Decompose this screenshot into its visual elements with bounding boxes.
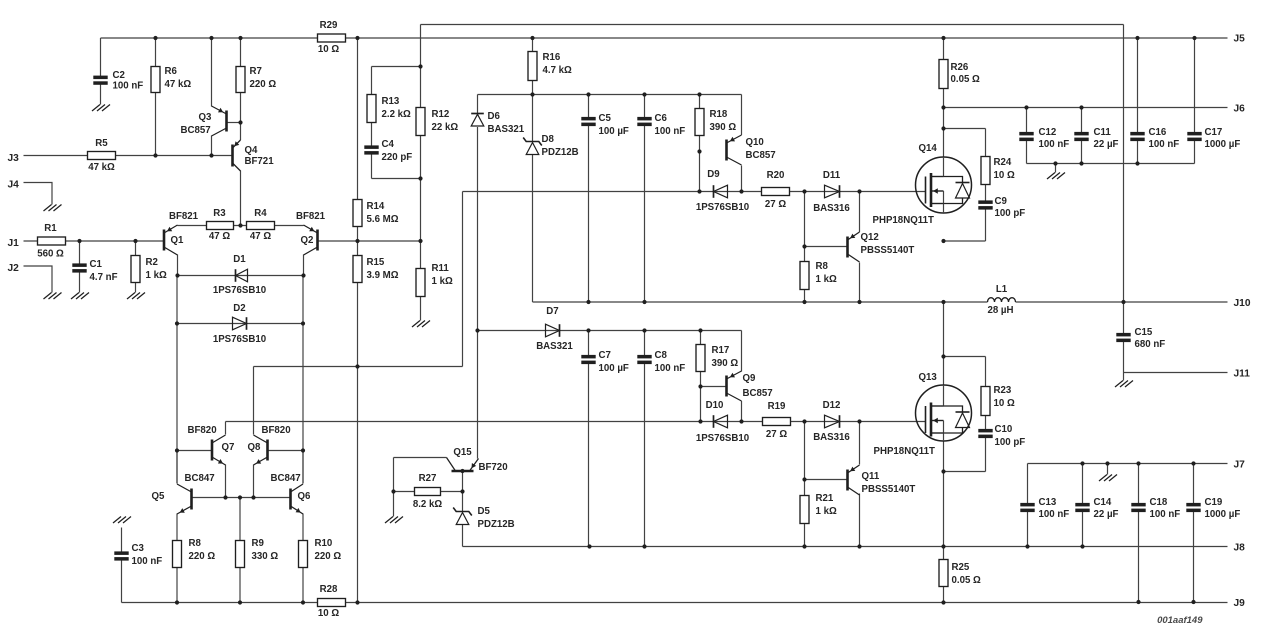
svg-text:D7: D7: [546, 306, 558, 317]
wire Q4 collector: [240, 171, 242, 226]
wire Q12 emitter: [859, 192, 861, 233]
svg-text:R25: R25: [952, 562, 970, 573]
wire Q8 base: [268, 450, 304, 452]
junction (176.5,602): [175, 600, 179, 604]
svg-text:D12: D12: [823, 400, 841, 411]
wire Q11 emitter: [859, 422, 861, 465]
transistor Q2 BF821: [304, 225, 318, 255]
svg-text:Q12: Q12: [861, 232, 879, 243]
resistor R1: [38, 237, 66, 245]
wire J9 bottom rail: [122, 602, 1228, 604]
wire Q13 source: [943, 442, 945, 560]
junction (804,301.5): [802, 300, 806, 304]
junction (302.5,323): [301, 321, 305, 325]
capacitor C15: [1116, 333, 1130, 342]
svg-text:Q13: Q13: [919, 372, 938, 383]
wire Q10 emitter: [741, 95, 743, 136]
wire C3 branch: [121, 528, 123, 603]
svg-text:R6: R6: [165, 66, 178, 77]
svg-text:22 µF: 22 µF: [1094, 139, 1119, 150]
wire R13 C4: [372, 67, 421, 179]
svg-text:C13: C13: [1039, 497, 1057, 508]
capacitor C16: [1130, 132, 1144, 141]
svg-text:C1: C1: [90, 259, 103, 270]
wire J3 input line: [24, 155, 233, 157]
inductor L1: [988, 298, 1016, 302]
svg-text:R16: R16: [543, 52, 561, 63]
wire C7 branch: [588, 331, 590, 547]
svg-text:J10: J10: [1234, 298, 1251, 309]
svg-text:Q8: Q8: [248, 442, 262, 453]
junction (253,497): [251, 495, 255, 499]
junction (1137,163): [1135, 161, 1139, 165]
svg-text:D6: D6: [488, 111, 501, 122]
wire Q1 emitter line: [178, 225, 304, 227]
svg-text:1 kΩ: 1 kΩ: [146, 270, 167, 281]
wire C17 branch: [1194, 38, 1196, 164]
wire C1 branch: [79, 241, 81, 293]
svg-text:1 kΩ: 1 kΩ: [816, 506, 837, 517]
wire J4 lead: [24, 183, 53, 205]
svg-text:100 nF: 100 nF: [655, 363, 686, 374]
junction (239.5,497): [238, 495, 242, 499]
junction (741,191): [739, 189, 743, 193]
svg-text:D9: D9: [707, 169, 720, 180]
junction (700,330): [698, 328, 702, 332]
svg-text:100 nF: 100 nF: [1039, 139, 1070, 150]
svg-text:R9: R9: [252, 538, 265, 549]
junction (943,107): [941, 105, 945, 109]
capacitor C17: [1187, 132, 1201, 141]
junction (477,330): [475, 328, 479, 332]
junction (699,94): [697, 92, 701, 96]
wire R23 C10 mid: [985, 416, 987, 430]
wire decouple mid rail: [1027, 163, 1195, 165]
capacitor C10: [978, 429, 992, 438]
svg-text:BAS321: BAS321: [488, 124, 525, 135]
junction (302.5,450): [301, 448, 305, 452]
svg-text:1PS76SB10: 1PS76SB10: [696, 202, 749, 213]
resistor R17: [696, 345, 705, 372]
capacitor C4: [364, 145, 378, 154]
capacitor C3: [114, 551, 128, 560]
svg-text:1PS76SB10: 1PS76SB10: [696, 433, 749, 444]
svg-text:D8: D8: [542, 134, 555, 145]
ground above C3: [113, 517, 131, 524]
svg-text:R19: R19: [768, 401, 786, 412]
transistor Q3 BC857: [212, 106, 227, 136]
wire Q7 base: [177, 450, 212, 452]
junction (859,191): [857, 189, 861, 193]
svg-text:C15: C15: [1135, 327, 1153, 338]
resistor R7: [236, 67, 245, 93]
capacitor C5: [581, 117, 595, 126]
svg-text:BF720: BF720: [479, 462, 508, 473]
wire Q9 base link: [701, 386, 727, 388]
svg-text:R14: R14: [367, 201, 385, 212]
junction (357,240.5): [355, 239, 359, 243]
wire R8 branch upper: [804, 192, 806, 303]
transistor Q1 BF821: [164, 225, 178, 255]
junction (357,37.5): [355, 36, 359, 40]
wire R14 R15 divider: [357, 38, 359, 603]
svg-text:C11: C11: [1094, 127, 1112, 138]
capacitor C12: [1019, 132, 1033, 141]
svg-text:10 Ω: 10 Ω: [994, 398, 1015, 409]
wire Q6 emitter: [302, 514, 304, 541]
diode D12: [825, 415, 840, 428]
resistor R13: [367, 95, 376, 123]
junction (393,491): [391, 489, 395, 493]
junction (1082,463): [1080, 461, 1084, 465]
svg-text:BF821: BF821: [169, 211, 199, 222]
capacitor C1: [72, 263, 86, 272]
wire Q12 collector: [859, 263, 861, 303]
svg-text:1000 µF: 1000 µF: [1205, 509, 1241, 520]
svg-text:1PS76SB10: 1PS76SB10: [213, 285, 266, 296]
resistor R8 (1 k): [800, 262, 809, 290]
svg-text:100 nF: 100 nF: [132, 556, 163, 567]
svg-text:Q1: Q1: [171, 235, 185, 246]
svg-text:BC857: BC857: [746, 150, 776, 161]
svg-text:C9: C9: [995, 196, 1008, 207]
svg-text:680 nF: 680 nF: [1135, 339, 1166, 350]
wire Q6 collector: [302, 451, 304, 484]
wire Q8 emitter: [253, 465, 255, 498]
svg-text:47 kΩ: 47 kΩ: [165, 79, 192, 90]
wire R25 to rail: [943, 587, 945, 603]
svg-text:100 nF: 100 nF: [1039, 509, 1070, 520]
svg-text:C10: C10: [995, 424, 1013, 435]
svg-text:Q4: Q4: [245, 145, 259, 156]
svg-text:5.6 MΩ: 5.6 MΩ: [367, 214, 399, 225]
resistor R20: [762, 188, 790, 196]
svg-text:C12: C12: [1039, 127, 1057, 138]
wire C13 branch: [1027, 464, 1029, 547]
svg-text:R11: R11: [432, 263, 450, 274]
wire R10 to rail: [302, 568, 304, 603]
capacitor C9: [978, 200, 992, 209]
svg-text:R23: R23: [994, 385, 1012, 396]
diode D7: [546, 324, 560, 337]
resistor R2: [131, 256, 140, 283]
wire Q3 collector: [211, 136, 213, 156]
junction (804,421): [802, 419, 806, 423]
wire J6 rail: [944, 107, 1228, 109]
resistor R28: [318, 599, 346, 607]
svg-text:220 Ω: 220 Ω: [250, 79, 277, 90]
wire Q2 chain down: [302, 324, 304, 484]
wire C18 branch: [1138, 464, 1140, 603]
wire feedback top link: [372, 25, 421, 108]
resistor R19: [763, 418, 791, 426]
wire Q3 emitter: [211, 38, 213, 107]
junction (943,546): [941, 544, 945, 548]
junction (1138,463): [1136, 461, 1140, 465]
svg-text:10 Ω: 10 Ω: [318, 608, 339, 619]
svg-text:22 kΩ: 22 kΩ: [432, 122, 459, 133]
wire R24 link: [944, 129, 986, 157]
svg-text:R17: R17: [712, 345, 730, 356]
transistor Q15 BF720: [447, 458, 479, 472]
svg-text:R29: R29: [320, 20, 338, 31]
svg-text:R13: R13: [382, 96, 400, 107]
wire C6 branch: [644, 95, 646, 303]
ground under C15: [1115, 381, 1133, 388]
svg-text:J6: J6: [1234, 104, 1246, 115]
svg-text:R2: R2: [146, 257, 158, 268]
capacitor C19: [1186, 503, 1200, 512]
diode D9: [714, 185, 728, 198]
junction (155,37.5): [153, 36, 157, 40]
junction (240,37.5): [238, 36, 242, 40]
junction (644,330): [642, 328, 646, 332]
svg-text:BC847: BC847: [271, 473, 301, 484]
wire J5 supply rail: [101, 37, 1228, 39]
svg-text:C3: C3: [132, 543, 145, 554]
resistor R9: [236, 541, 245, 568]
svg-text:C5: C5: [599, 113, 612, 124]
wire Q11 base link: [805, 479, 848, 481]
MOSFET Q13 PHP18NQ11T: [916, 385, 972, 441]
junction (588,330): [586, 328, 590, 332]
svg-text:R4: R4: [254, 208, 267, 219]
wire lower gate drive line: [226, 421, 926, 423]
wire latch emitter rail: [192, 497, 291, 499]
junction (176.5,450): [175, 448, 179, 452]
transistor Q12 PBSS5140T: [848, 232, 860, 262]
wire Q7 collector: [225, 422, 227, 435]
junction (1027,546): [1025, 544, 1029, 548]
junction (859,546): [857, 544, 861, 548]
wire D6 chain: [477, 95, 479, 459]
junction (741,421): [739, 419, 743, 423]
svg-text:PDZ12B: PDZ12B: [542, 147, 579, 158]
resistor R15: [353, 256, 362, 283]
wire C10 return: [944, 438, 986, 472]
wire 12V rail lower: [478, 330, 742, 332]
junction (177,275): [175, 273, 179, 277]
svg-text:001aaf149: 001aaf149: [1157, 615, 1203, 626]
wire C16 branch: [1137, 38, 1139, 164]
wire output sense drop: [1123, 25, 1125, 373]
svg-text:100 µF: 100 µF: [599, 363, 629, 374]
capacitor C18: [1131, 503, 1145, 512]
wire D5 chain: [462, 471, 464, 547]
svg-text:C6: C6: [655, 113, 668, 124]
junction (943,602): [941, 600, 945, 604]
junction (303,275): [301, 273, 305, 277]
junction (1194,37.5): [1192, 36, 1196, 40]
svg-text:100 nF: 100 nF: [1150, 509, 1181, 520]
junction (240,122): [238, 120, 242, 124]
junction (588,301.5): [586, 300, 590, 304]
junction (589,546): [587, 544, 591, 548]
wire Q11 collector: [859, 494, 861, 547]
junction (699,151): [697, 149, 701, 153]
svg-text:C16: C16: [1149, 127, 1167, 138]
junction (1193,601.5): [1191, 600, 1195, 604]
transistor Q6 BC847: [291, 484, 304, 514]
junction (804,191): [802, 189, 806, 193]
junction (1081,163): [1079, 161, 1083, 165]
svg-text:Q2: Q2: [301, 235, 314, 246]
svg-text:R10: R10: [315, 538, 333, 549]
svg-text:390 Ω: 390 Ω: [710, 122, 737, 133]
resistor R3: [207, 222, 234, 230]
resistor R5: [88, 152, 116, 160]
junction (1082,546): [1080, 544, 1084, 548]
resistor R11: [416, 269, 425, 297]
wire R11 to ground: [420, 297, 422, 321]
svg-text:220 pF: 220 pF: [382, 152, 413, 163]
wire Q12 base link: [805, 246, 848, 248]
svg-text:47 kΩ: 47 kΩ: [88, 162, 115, 173]
svg-text:Q10: Q10: [746, 137, 764, 148]
junction (462,470.5): [460, 469, 464, 473]
resistor R26: [939, 60, 948, 89]
transistor Q8 BF820: [254, 435, 268, 465]
svg-text:PBSS5140T: PBSS5140T: [861, 245, 915, 256]
junction (155,155): [153, 153, 157, 157]
svg-text:PDZ12B: PDZ12B: [478, 519, 515, 530]
junction (532,94): [530, 92, 534, 96]
svg-text:BC857: BC857: [181, 125, 211, 136]
wire Q8 collector: [253, 367, 255, 435]
svg-text:BC847: BC847: [185, 473, 215, 484]
junction (420,178): [418, 176, 422, 180]
ground under C1: [71, 293, 89, 300]
junction (1123,301.5): [1121, 300, 1125, 304]
svg-text:D2: D2: [233, 303, 245, 314]
svg-text:Q3: Q3: [199, 112, 213, 123]
resistor R14: [353, 200, 362, 227]
svg-text:R28: R28: [320, 584, 338, 595]
resistor R18: [695, 109, 704, 136]
svg-text:PHP18NQ11T: PHP18NQ11T: [874, 446, 935, 457]
wire D2 link: [177, 276, 303, 324]
svg-text:BAS316: BAS316: [813, 432, 850, 443]
wire Q2 base line: [318, 240, 421, 242]
transistor Q7 BF820: [212, 435, 226, 465]
svg-text:R3: R3: [213, 208, 226, 219]
svg-text:J11: J11: [1234, 368, 1251, 379]
svg-text:R18: R18: [710, 109, 728, 120]
svg-text:22 µF: 22 µF: [1094, 509, 1119, 520]
transistor Q10 BC857: [727, 135, 742, 165]
wire 12V rail upper: [478, 94, 742, 96]
svg-text:4.7 kΩ: 4.7 kΩ: [543, 65, 573, 76]
transistor Q4 BF721: [233, 140, 241, 171]
zener diode D8: [523, 138, 542, 155]
wire R7 branch: [240, 38, 242, 140]
capacitor C6: [637, 117, 651, 126]
junction (804,479): [802, 477, 806, 481]
diode D1: [236, 269, 248, 282]
wire R17 branch: [700, 331, 702, 422]
wire J2 lead: [24, 266, 53, 293]
diode D10: [714, 415, 728, 428]
resistor R16: [528, 52, 537, 81]
wire J8 rail: [463, 546, 1228, 548]
svg-text:220 Ω: 220 Ω: [315, 551, 342, 562]
capacitor C13: [1020, 503, 1034, 512]
svg-text:PBSS5140T: PBSS5140T: [862, 484, 916, 495]
zener diode D5: [453, 508, 472, 525]
junction (420,240.5): [418, 239, 422, 243]
svg-text:J4: J4: [8, 179, 20, 190]
junction (699,191): [697, 189, 701, 193]
wire C2 branch: [100, 38, 102, 105]
svg-text:L1: L1: [996, 284, 1008, 295]
svg-text:Q14: Q14: [919, 143, 938, 154]
junction (1137,37.5): [1135, 36, 1139, 40]
junction (1107,463): [1105, 461, 1109, 465]
ground on J7 rail: [1099, 475, 1117, 482]
resistor R27: [415, 488, 441, 496]
junction (1193,463): [1191, 461, 1195, 465]
ground decouple rail upper: [1047, 173, 1065, 180]
wire R12 to R11: [420, 136, 422, 269]
junction (943,471): [941, 469, 945, 473]
svg-text:8.2 kΩ: 8.2 kΩ: [413, 499, 443, 510]
wire top feedback rail: [421, 24, 1124, 26]
wire D1 link: [178, 255, 304, 276]
junction (859,421): [857, 419, 861, 423]
wire J11 rail: [1124, 372, 1228, 374]
svg-text:R26: R26: [951, 62, 969, 73]
wire Q15 collector link: [394, 458, 447, 492]
diode D11: [825, 185, 840, 198]
ground near R27: [385, 517, 403, 524]
svg-text:Q15: Q15: [453, 447, 472, 458]
junction (943,37.5): [941, 36, 945, 40]
svg-text:R8: R8: [816, 261, 829, 272]
wire R9 to rail: [239, 568, 241, 603]
transistor Q11 PBSS5140T: [848, 465, 860, 495]
wire R18 branch: [699, 95, 701, 192]
junction (357,366): [355, 364, 359, 368]
svg-text:PHP18NQ11T: PHP18NQ11T: [873, 215, 934, 226]
ground at J4: [44, 205, 62, 212]
resistor R21: [800, 496, 809, 524]
svg-text:0.05 Ω: 0.05 Ω: [952, 575, 982, 586]
resistor R4: [247, 222, 275, 230]
junction (700,386): [698, 384, 702, 388]
wire Q5 emitter: [176, 514, 178, 541]
junction (588,94): [586, 92, 590, 96]
svg-text:100 nF: 100 nF: [1149, 139, 1180, 150]
svg-text:560 Ω: 560 Ω: [37, 249, 64, 260]
svg-text:D11: D11: [823, 170, 841, 181]
svg-text:C14: C14: [1094, 497, 1112, 508]
wire Q9 emitter: [741, 331, 743, 372]
svg-text:Q7: Q7: [222, 442, 235, 453]
junction (302.5,602): [301, 600, 305, 604]
junction (211,37.5): [209, 36, 213, 40]
junction (943,240.5): [941, 239, 945, 243]
junction (1081,107): [1079, 105, 1083, 109]
wire upper gate drive line: [463, 191, 926, 193]
wire C11 branch: [1081, 108, 1083, 164]
svg-text:4.7 nF: 4.7 nF: [90, 272, 118, 283]
junction (943,356): [941, 354, 945, 358]
wire C9 return: [944, 209, 986, 242]
svg-text:330 Ω: 330 Ω: [252, 551, 279, 562]
svg-text:BAS321: BAS321: [536, 341, 573, 352]
junction (804,246): [802, 244, 806, 248]
wire R23 link: [944, 357, 986, 387]
